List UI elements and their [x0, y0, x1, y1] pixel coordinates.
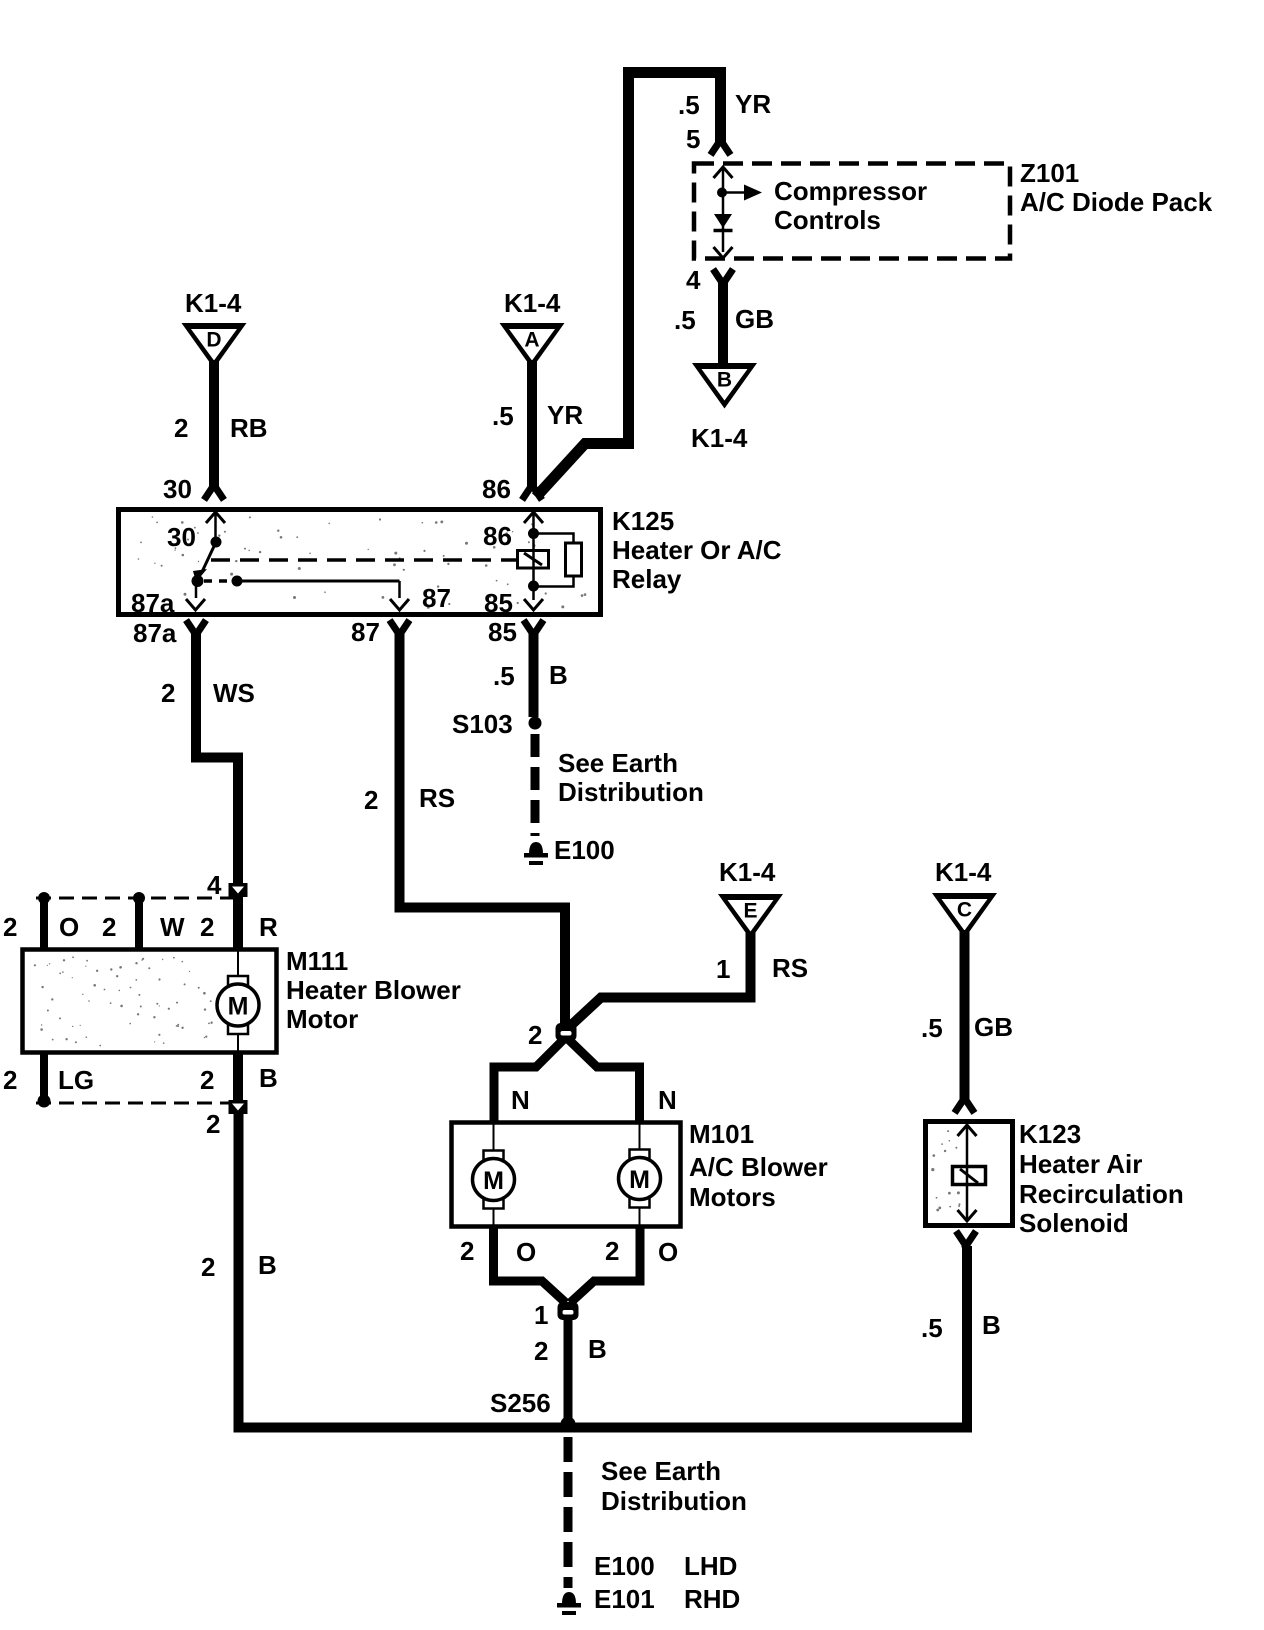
pin 4 label	[686, 265, 701, 295]
K123 internal wire and arrows	[958, 1125, 977, 1221]
relay actuation dashed line	[211, 558, 516, 562]
svg-text:.5: .5	[921, 1313, 943, 1343]
svg-text:87a: 87a	[131, 588, 175, 618]
wire connector E to junction	[567, 932, 751, 1029]
svg-text:.5: .5	[493, 661, 515, 691]
M111 bottom dashed line	[36, 1102, 233, 1105]
connector A (K1-4)	[500, 323, 565, 369]
pin 85 label	[488, 617, 517, 647]
relay 87 branch wire	[237, 580, 400, 583]
svg-text:1: 1	[534, 1300, 548, 1330]
wire split to M101 N pins	[494, 1039, 640, 1124]
svg-text:87: 87	[351, 617, 380, 647]
svg-text:W: W	[160, 912, 185, 942]
relay coil	[518, 550, 549, 568]
svg-text:Heater Air: Heater Air	[1019, 1149, 1142, 1179]
label S256	[490, 1388, 551, 1418]
splice S256	[561, 1417, 576, 1432]
labels E100 LHD / E101 RHD	[594, 1551, 740, 1614]
svg-text:Motor: Motor	[286, 1004, 358, 1034]
ground E100	[524, 842, 548, 865]
M111 stub wire W	[133, 892, 145, 951]
svg-text:M101: M101	[689, 1119, 754, 1149]
svg-text:2: 2	[460, 1236, 474, 1266]
svg-text:RS: RS	[419, 783, 455, 813]
svg-text:.5: .5	[492, 401, 514, 431]
relay pin 85 dot	[528, 581, 539, 592]
ground E100/E101	[557, 1592, 581, 1615]
svg-text:YR: YR	[547, 400, 583, 430]
svg-text:S256: S256	[490, 1388, 551, 1418]
svg-text:O: O	[59, 912, 79, 942]
arrow to compressor controls	[722, 185, 762, 201]
pin 87a label	[133, 618, 177, 648]
wire: battery feed from splice to relay pin 86 and Z101 pin 5	[536, 73, 721, 498]
label K1-4 above connector E	[719, 857, 776, 887]
svg-text:B: B	[258, 1250, 277, 1280]
A/C blower motors M101 box	[452, 1123, 681, 1227]
relay coil branch wire (86 to 85)	[532, 514, 535, 600]
wire connector A to relay pin 86	[527, 360, 537, 489]
label K1-4 above connector A	[504, 288, 561, 318]
wire label .5 YR	[492, 400, 583, 431]
svg-text:A/C Diode Pack: A/C Diode Pack	[1020, 187, 1213, 217]
N pin labels	[511, 1085, 677, 1115]
svg-text:Recirculation: Recirculation	[1019, 1179, 1184, 1209]
M111 bottom stub LG	[38, 1051, 51, 1108]
svg-text:.5: .5	[678, 90, 700, 120]
svg-text:GB: GB	[735, 304, 774, 334]
svg-text:C: C	[957, 899, 972, 922]
diode D1 of Z101	[714, 214, 733, 231]
svg-text:Compressor: Compressor	[774, 176, 927, 206]
svg-text:B: B	[549, 660, 568, 690]
svg-text:Heater Or A/C: Heater Or A/C	[612, 535, 782, 565]
relay common dot (pin 87a)	[192, 575, 204, 587]
wire M111 B out	[233, 1051, 243, 1101]
relay switch pivot dot (pin 30)	[211, 537, 222, 548]
motor M101 left symbol	[473, 1124, 515, 1225]
svg-text:RS: RS	[772, 953, 808, 983]
M111 top wire labels 2 O 2 W 2 R	[3, 912, 278, 942]
svg-text:2: 2	[200, 912, 214, 942]
svg-text:N: N	[511, 1085, 530, 1115]
wire label .5 YR (Z101 feed)	[678, 89, 771, 120]
connector 2 label	[206, 1109, 220, 1139]
svg-text:2: 2	[364, 785, 378, 815]
relay resistor wiring	[534, 534, 574, 587]
motor M111 symbol	[217, 951, 259, 1051]
label K1-4 above connector D	[185, 288, 242, 318]
wire label 1 RS	[716, 953, 808, 984]
label Z101 A/C Diode Pack	[1020, 158, 1213, 217]
connector C (K1-4)	[932, 893, 997, 939]
label K123 Heater Air Recirculation Solenoid	[1019, 1119, 1184, 1238]
Z101 internal junction dot	[717, 188, 727, 198]
label K1-4 above connector C	[935, 857, 992, 887]
svg-text:RB: RB	[230, 413, 268, 443]
svg-text:E100: E100	[554, 835, 615, 865]
pin 30 label	[163, 474, 192, 504]
label E100	[554, 835, 615, 865]
svg-text:2: 2	[174, 413, 188, 443]
dashed link 87a to 87 branch	[204, 579, 231, 583]
svg-text:87: 87	[422, 583, 451, 613]
svg-text:K1-4: K1-4	[719, 857, 776, 887]
svg-text:Controls: Controls	[774, 205, 881, 235]
svg-text:30: 30	[167, 522, 196, 552]
wire label .5 GB	[921, 1012, 1013, 1043]
svg-text:RHD: RHD	[684, 1584, 740, 1614]
svg-text:LG: LG	[58, 1065, 94, 1095]
svg-text:Z101: Z101	[1020, 158, 1079, 188]
Z101 internal node wire	[722, 168, 725, 252]
svg-text:O: O	[658, 1237, 678, 1267]
svg-text:Distribution: Distribution	[558, 777, 704, 807]
svg-text:A: A	[524, 329, 539, 352]
motor M101 right symbol	[619, 1124, 661, 1225]
wire label 2 RS	[364, 783, 455, 815]
Z101 pin 5 internal arrow	[714, 167, 733, 178]
svg-text:See Earth: See Earth	[558, 748, 678, 778]
wire label 2 B	[534, 1334, 607, 1366]
label M101 A/C Blower Motors	[689, 1119, 828, 1212]
wire relay 87a to heater blower motor	[196, 631, 238, 884]
svg-text:2: 2	[161, 678, 175, 708]
K123 bottom fishtail	[958, 1234, 974, 1246]
dashed wire S103 to E100	[531, 734, 540, 836]
relay K125 box	[119, 510, 601, 615]
K123 box stipple	[931, 1130, 960, 1211]
text See Earth Distribution (bottom)	[601, 1456, 747, 1516]
svg-text:2: 2	[3, 1065, 17, 1095]
K123 solenoid coil	[953, 1166, 986, 1185]
connector E (K1-4)	[718, 894, 783, 940]
relay switch arm	[193, 542, 216, 582]
relay internal pin labels	[131, 521, 513, 618]
relay 87 branch dot	[232, 576, 243, 587]
label S103	[452, 709, 513, 739]
wire label .5 B	[493, 660, 568, 691]
svg-text:86: 86	[482, 474, 511, 504]
svg-text:4: 4	[207, 870, 222, 900]
M111 stub wire O	[38, 892, 50, 951]
svg-text:Relay: Relay	[612, 564, 682, 594]
svg-text:2: 2	[201, 1252, 215, 1282]
inline connector below M111	[229, 1100, 248, 1114]
svg-text:M: M	[483, 1167, 504, 1195]
wire junction to S256	[564, 1318, 573, 1423]
relay resistor R1	[566, 543, 582, 576]
svg-text:E: E	[743, 900, 757, 923]
svg-text:Solenoid: Solenoid	[1019, 1208, 1129, 1238]
M111 bottom wire labels 2 LG 2 B	[3, 1063, 278, 1095]
wire label .5 B (right earth wire)	[921, 1310, 1001, 1343]
svg-text:B: B	[717, 369, 732, 392]
M101 bottom wires to junction 1	[494, 1225, 641, 1303]
pin 87 label	[351, 617, 380, 647]
svg-text:S103: S103	[452, 709, 513, 739]
svg-text:GB: GB	[974, 1012, 1013, 1042]
text Compressor Controls	[774, 176, 927, 235]
svg-text:M: M	[629, 1166, 650, 1194]
wire connector D to relay pin 30	[209, 360, 219, 489]
svg-text:B: B	[982, 1310, 1001, 1340]
pin 85 fishtail	[526, 623, 542, 635]
svg-text:E101: E101	[594, 1584, 655, 1614]
svg-text:30: 30	[163, 474, 192, 504]
pin 87 fishtail	[392, 623, 408, 635]
svg-text:K1-4: K1-4	[185, 288, 242, 318]
svg-text:2: 2	[605, 1236, 619, 1266]
inline connector 2 at M101 feed	[556, 1023, 577, 1041]
svg-text:O: O	[516, 1237, 536, 1267]
pin 30 fishtail	[206, 485, 222, 497]
label K125 Heater Or A/C Relay	[612, 506, 782, 594]
dashed wire S256 to earth	[564, 1437, 573, 1588]
svg-text:.5: .5	[674, 305, 696, 335]
inline connector at M111 pin R	[229, 883, 248, 897]
svg-text:N: N	[658, 1085, 677, 1115]
pin 5 label	[686, 124, 700, 154]
relay pin 86 dot	[528, 528, 539, 539]
connector B (K1-4)	[692, 363, 757, 409]
relay pin 87a internal arrow and stem	[186, 581, 205, 610]
Z101 pin 4 internal arrow	[714, 247, 733, 258]
svg-text:85: 85	[488, 617, 517, 647]
label M111 Heater Blower Motor	[286, 946, 461, 1034]
earth bus wire from M111 to S256 to K123	[239, 1113, 968, 1428]
svg-text:WS: WS	[213, 678, 255, 708]
svg-text:2: 2	[528, 1020, 542, 1050]
wire label 2 B (left earth wire)	[201, 1250, 277, 1282]
relay pin 85 internal arrow	[524, 599, 543, 610]
A/C diode pack Z101 dashed box	[694, 164, 1010, 259]
pin 87a fishtail	[188, 623, 204, 635]
svg-text:YR: YR	[735, 89, 771, 119]
pin 86 fishtail	[524, 485, 540, 497]
wire relay 87 to A/C blower motors	[400, 631, 566, 1024]
connector pin 2 label	[528, 1020, 542, 1050]
wire connector C to K123	[960, 930, 970, 1101]
heater air recirculation solenoid K123 box	[926, 1122, 1013, 1226]
relay pin 30 internal arrow and stem	[206, 512, 225, 537]
svg-text:K1-4: K1-4	[504, 288, 561, 318]
svg-text:M111: M111	[286, 946, 348, 976]
svg-text:K123: K123	[1019, 1119, 1081, 1149]
connector D (K1-4)	[182, 323, 247, 369]
svg-text:M: M	[228, 993, 249, 1021]
pin 86 label	[482, 474, 511, 504]
connector pin 1 label	[534, 1300, 548, 1330]
svg-text:See Earth: See Earth	[601, 1456, 721, 1486]
svg-text:86: 86	[483, 521, 512, 551]
splice S103	[529, 717, 542, 730]
wire relay 85 to splice S103	[529, 631, 539, 717]
svg-text:.5: .5	[921, 1013, 943, 1043]
wire label 2 WS	[161, 678, 255, 708]
svg-text:Distribution: Distribution	[601, 1486, 747, 1516]
connector 4 label	[207, 870, 222, 900]
M111 connector dashed line top	[36, 897, 233, 900]
svg-text:K1-4: K1-4	[935, 857, 992, 887]
K123 top fishtail	[957, 1098, 973, 1110]
svg-text:R: R	[259, 912, 278, 942]
svg-text:1: 1	[716, 954, 730, 984]
svg-text:2: 2	[206, 1109, 220, 1139]
relay box stipple	[138, 516, 587, 609]
svg-text:2: 2	[3, 912, 17, 942]
connector pin 4 fishtail below Z101	[715, 272, 731, 284]
M111 box stipple	[34, 956, 213, 1046]
svg-text:E100: E100	[594, 1551, 655, 1581]
svg-text:Heater Blower: Heater Blower	[286, 975, 461, 1005]
svg-text:2: 2	[534, 1336, 548, 1366]
svg-text:5: 5	[686, 124, 700, 154]
svg-text:K125: K125	[612, 506, 674, 536]
svg-text:85: 85	[484, 588, 513, 618]
wire Z101 pin 4 to connector B	[718, 280, 728, 364]
svg-text:2: 2	[200, 1065, 214, 1095]
wire label 2 RB	[174, 413, 268, 443]
svg-text:B: B	[259, 1063, 278, 1093]
svg-text:2: 2	[102, 912, 116, 942]
text See Earth Distribution	[558, 748, 704, 807]
M101 bottom labels 2 O 2 O	[460, 1236, 678, 1267]
svg-text:D: D	[206, 329, 221, 352]
relay pin 86 internal arrow	[524, 512, 543, 523]
svg-text:K1-4: K1-4	[691, 423, 748, 453]
svg-text:Motors: Motors	[689, 1182, 776, 1212]
relay pin 87 internal arrow and stem	[390, 581, 409, 610]
svg-text:B: B	[588, 1334, 607, 1364]
connector pin 5 fishtail at Z101	[713, 140, 729, 152]
svg-text:87a: 87a	[133, 618, 177, 648]
heater blower motor M111 box	[23, 950, 277, 1053]
svg-text:4: 4	[686, 265, 701, 295]
svg-text:LHD: LHD	[684, 1551, 737, 1581]
wire into M111	[233, 896, 243, 951]
wire label .5 GB	[674, 304, 774, 335]
label K1-4 below connector B	[691, 423, 748, 453]
inline connector 1 below M101	[558, 1302, 579, 1320]
svg-text:A/C Blower: A/C Blower	[689, 1152, 828, 1182]
